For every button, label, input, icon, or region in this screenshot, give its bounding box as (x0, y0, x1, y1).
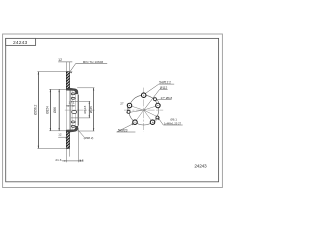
hat upper wall (section blob) (66, 88, 78, 94)
leader 27 O6.8 (156, 98, 172, 101)
hat dim line (93, 88, 95, 131)
spoke to 189deg hole (126, 110, 144, 113)
dim 17.1 line (66, 105, 75, 107)
svg-text:3.5: 3.5 (79, 158, 84, 162)
hat inner face line (70, 90, 72, 130)
bolt hole 306deg (150, 120, 155, 125)
svg-text:27: 27 (120, 102, 124, 106)
spoke to 234deg hole (133, 110, 143, 124)
bottom 12 label underline leader (58, 137, 67, 138)
svg-text:17.1: 17.1 (69, 101, 75, 105)
friction ring lower section (hatched) (66, 131, 69, 149)
spoke to 18deg hole (144, 105, 161, 111)
ring inner silhouette right (69, 89, 71, 131)
hat dim ext bottom (78, 130, 95, 132)
hat wall line 3 (74, 94, 76, 126)
inner ring ext bottom (49, 130, 66, 132)
svg-text:5xØ23: 5xØ23 (118, 129, 128, 133)
svg-text:Ø256.2: Ø256.2 (34, 105, 38, 115)
bolt hole 18deg (156, 103, 161, 108)
bore ext bottom (79, 117, 90, 119)
svg-text:Ø64.8: Ø64.8 (83, 105, 87, 113)
svg-text:21.6: 21.6 (55, 158, 61, 162)
bolt hole ellipse 2 (71, 97, 75, 99)
angle arc 18-45 (156, 98, 160, 105)
leader 5xO12.2 (145, 84, 174, 94)
bolt hole ellipse 1 (71, 93, 75, 95)
drawing sheet outer frame (3, 34, 223, 188)
svg-text:27° Ø6.8: 27° Ø6.8 (161, 96, 173, 100)
bolt hole ellipse 4 (71, 125, 75, 127)
title box top-left (6, 38, 36, 45)
SW label leader (79, 131, 84, 137)
bottom ext right (78, 128, 80, 162)
svg-text:1xM8x1.25 27: 1xM8x1.25 27 (164, 122, 182, 126)
axis centerline left view (65, 109, 95, 111)
svg-text:Ø96: Ø96 (53, 107, 57, 113)
spoke to 306deg hole (144, 110, 155, 124)
PCD circle (129, 95, 159, 125)
hat wall line 2 (71, 91, 73, 130)
svg-text:Ø112: Ø112 (160, 86, 168, 90)
hat lower wall (section blob) (66, 126, 78, 132)
set screw hole 333deg (156, 116, 159, 119)
bottom ext left (65, 149, 67, 162)
bore dim line (88, 101, 90, 117)
bolt hole ellipse 3 (71, 121, 75, 123)
spoke to 162deg hole (127, 105, 144, 110)
drawing sheet inner frame (6, 38, 219, 181)
bolt hole 162deg (127, 103, 132, 108)
leader O112 (144, 89, 168, 110)
svg-text:(Ø98.2): (Ø98.2) (84, 136, 94, 140)
bore upper edge (71, 100, 79, 102)
hat dim ext top (77, 87, 94, 89)
angle arc 162-189 (126, 105, 129, 113)
bottom dim line (62, 160, 83, 162)
svg-text:24243: 24243 (13, 40, 27, 46)
dim inner ring line (49, 90, 51, 131)
svg-text:Ø145: Ø145 (89, 106, 93, 113)
leader M8 label (158, 118, 183, 125)
bolt hole top (141, 93, 146, 98)
set screw hole 45deg (154, 98, 157, 101)
svg-text:12: 12 (58, 133, 62, 137)
angle arc 306-333 (153, 118, 158, 123)
dim OD line (37, 72, 39, 149)
spoke to 333deg hole (144, 110, 160, 118)
ring inner silhouette left (65, 89, 67, 131)
bottom ext mid (69, 149, 71, 157)
friction ring upper section (hatched) (66, 72, 69, 90)
svg-text:24243: 24243 (194, 164, 207, 170)
svg-text:MIN TH 10MM: MIN TH 10MM (83, 60, 104, 64)
inner ring ext top (49, 88, 66, 90)
dim hat line (58, 90, 60, 131)
OD ext line top (37, 71, 66, 73)
bore lower edge (71, 117, 79, 119)
horizontal centerline front view (124, 109, 163, 111)
dim 12 ext right (69, 62, 71, 71)
hub register ellipse (72, 111, 77, 114)
set screw hole 189deg (127, 110, 130, 113)
MIN TH leader (70, 63, 107, 72)
svg-text:Ø154: Ø154 (45, 106, 49, 114)
hat mounting face (dark) (77, 95, 79, 126)
dim 12 line (58, 61, 72, 63)
svg-text:5xØ12.2: 5xØ12.2 (159, 81, 171, 85)
bore ext top (79, 100, 90, 102)
bolt hole 234deg (133, 120, 138, 125)
svg-text:12: 12 (58, 58, 62, 62)
leader 5xO23 (117, 124, 136, 133)
OD ext line bottom (37, 148, 66, 150)
vertical centerline (143, 88, 145, 132)
dim 12 ext left (65, 62, 67, 71)
